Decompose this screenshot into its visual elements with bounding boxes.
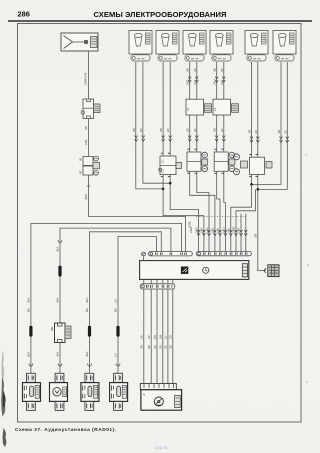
svg-text:43A: 43A [56, 352, 60, 357]
connector mark w2 [58, 364, 62, 367]
radio connector strip A [149, 252, 193, 256]
svg-text:43A: 43A [56, 298, 60, 303]
antenna unit box [61, 33, 98, 51]
speaker HP5 rear shelf left [245, 31, 268, 62]
svg-text:24S: 24S [186, 80, 190, 85]
svg-text:24BR-FB: 24BR-FB [84, 73, 88, 85]
wire HP5 right [257, 62, 259, 189]
svg-text:90: 90 [79, 170, 83, 174]
connector arrows HP4 [215, 136, 218, 142]
connector tab w2 bottom [55, 401, 64, 410]
fuse w4 [116, 326, 119, 337]
connector tab w4 bottom [114, 401, 123, 410]
relay box [50, 323, 71, 343]
inline antenna connector [79, 156, 100, 175]
scan smudge lower [3, 428, 7, 447]
svg-text:BA: BA [85, 308, 89, 312]
wire HP5 left [251, 62, 253, 184]
wire radio-out 5 [167, 279, 169, 283]
fuse w3 [88, 326, 91, 337]
svg-text:24T: 24T [216, 228, 220, 233]
svg-text:43A: 43A [56, 247, 60, 252]
wire illumination w4 [118, 237, 156, 374]
svg-text:286: 286 [18, 9, 30, 18]
fuse w2 [58, 266, 61, 277]
svg-text:3B: 3B [84, 126, 88, 130]
antenna wire to radio [89, 175, 186, 252]
svg-text:2B: 2B [159, 128, 163, 132]
scan speck [305, 154, 307, 156]
radio earth pin [142, 252, 146, 261]
door connector HP4 [214, 152, 235, 172]
wire HP5R to CD connector [258, 189, 266, 270]
connector arrows radio bundle [197, 230, 247, 236]
connector arrows HP5 [250, 137, 253, 143]
junction HP2-right [169, 182, 172, 185]
wire radio-out 2 [150, 279, 152, 283]
radio clock icon [203, 267, 209, 273]
wire HP6 right [258, 62, 288, 189]
connector arrows HP1 [135, 136, 138, 142]
connector tab w3 [85, 373, 94, 382]
wire HP1 right [143, 62, 170, 183]
fuse box assembly PP3 [81, 383, 99, 402]
svg-text:3B: 3B [213, 68, 217, 72]
svg-text:2B: 2B [132, 128, 136, 132]
wire HP2 right [169, 62, 171, 183]
svg-text:Спр.ru: Спр.ru [154, 445, 168, 450]
svg-text:24U: 24U [213, 79, 217, 85]
wire pin B10 stub [245, 214, 247, 252]
svg-text:24V: 24V [220, 80, 224, 85]
wire battery feed w1 [31, 223, 182, 373]
wire radio-out 3 [156, 279, 158, 283]
svg-text:20A: 20A [27, 352, 31, 357]
connector arrows HP4 upper [215, 77, 218, 83]
wire tick [87, 185, 91, 187]
svg-text:20A: 20A [27, 298, 31, 303]
fuse box assembly PP4 [110, 383, 128, 402]
inline connector HP3 [186, 99, 212, 115]
svg-text:N: N [143, 393, 145, 397]
radio cassette icon [181, 267, 188, 274]
wire radio-out 4 [162, 279, 164, 283]
radio bottom connector strip [140, 284, 175, 289]
wire HP3 left [190, 62, 215, 252]
pin labels radio bundle [189, 227, 240, 233]
battery unit box [50, 383, 68, 402]
svg-text:38A: 38A [85, 298, 89, 303]
svg-text:30M: 30M [84, 194, 88, 200]
labels radio-out lower [140, 344, 173, 349]
svg-text:2L: 2L [164, 335, 168, 339]
svg-text:24T: 24T [193, 80, 197, 85]
svg-text:3G: 3G [169, 344, 173, 349]
twisted pair marker [196, 216, 248, 218]
svg-text:16: 16 [213, 107, 217, 111]
svg-text:M5: M5 [50, 327, 54, 331]
connector mark w4 [116, 364, 120, 367]
junction HP5-left [250, 183, 253, 186]
connector arrows HP3 [188, 136, 191, 142]
scan smudge upper [2, 350, 5, 380]
connector tab w1 bottom [27, 401, 36, 410]
svg-text:BA: BA [27, 308, 31, 312]
svg-text:3B: 3B [186, 68, 190, 72]
svg-text:30M: 30M [188, 221, 192, 227]
svg-text:2N: 2N [153, 335, 157, 339]
wire HP2L to radio [163, 189, 204, 252]
connector arrows HP6 [280, 137, 283, 143]
svg-text:24N: 24N [194, 227, 198, 233]
connector tab w3 bottom [85, 401, 94, 410]
wire HP6 left [252, 62, 282, 184]
radio connector strip B [196, 252, 251, 256]
svg-text:90: 90 [79, 157, 83, 161]
wire HP2 left [162, 62, 164, 189]
display unit box [141, 390, 182, 411]
wire HP2R to radio [170, 183, 198, 251]
door connector HP2 [159, 156, 182, 175]
wire amp to connector [88, 119, 90, 157]
svg-text:3E: 3E [164, 345, 168, 349]
svg-text:2S: 2S [140, 335, 144, 339]
wire HP1 left [136, 62, 163, 189]
inline connector HP4 [213, 99, 239, 115]
svg-text:38A: 38A [85, 352, 89, 357]
labels radio-out upper [140, 334, 173, 339]
svg-text:Схема 37. Аудиоустановка (RAD0: Схема 37. Аудиоустановка (RAD01). [15, 427, 116, 433]
connector tab w4 [114, 373, 123, 382]
speaker HP6 rear shelf right [273, 31, 296, 62]
speaker HP4 rear right door [210, 31, 233, 62]
wire radio-out 1 [143, 279, 145, 283]
svg-text:3B: 3B [147, 345, 151, 349]
svg-text:C1: C1 [161, 159, 165, 163]
svg-text:2M: 2M [159, 334, 163, 339]
connector arrows HP3 upper [188, 77, 191, 83]
svg-text:24M: 24M [189, 227, 193, 233]
svg-text:C2: C2 [161, 169, 165, 173]
display unit connector strip [140, 384, 176, 390]
svg-text:LA: LA [114, 353, 118, 357]
wire HP3 right [197, 62, 209, 252]
door connector HP3 [187, 152, 208, 172]
wire ignition feed w3 [90, 232, 162, 373]
CD changer connector [264, 265, 279, 277]
fuse F20 w1 [29, 326, 32, 337]
header rule [8, 20, 312, 22]
speaker HP3 rear left door [183, 31, 206, 62]
wire radio-out 6 [172, 279, 174, 283]
svg-text:24U: 24U [221, 227, 225, 233]
wire HP5R branch to radio [236, 189, 255, 251]
wire accessory feed w2 [60, 228, 171, 373]
wire pin B9 stub [240, 214, 242, 252]
svg-text:СХЕМЫ ЭЛЕКТРООБОРУДОВАНИЯ: СХЕМЫ ЭЛЕКТРООБОРУДОВАНИЯ [94, 10, 227, 19]
svg-text:2M: 2M [253, 233, 257, 238]
wire HP4 left [217, 62, 220, 252]
radio head unit box [140, 261, 249, 280]
connector mark w3 [88, 364, 92, 367]
svg-text:BA: BA [114, 308, 118, 312]
pin number marks door connectors [161, 149, 258, 176]
fuse box assembly PP1 [23, 383, 41, 402]
svg-text:2B: 2B [248, 130, 252, 134]
wire HP4 right [224, 62, 226, 252]
speaker HP2 front right [156, 31, 179, 62]
shelf connector HP5 [234, 154, 273, 175]
svg-text:2B: 2B [186, 128, 190, 132]
connector arrows HP2 [162, 136, 165, 142]
connector tab w2 [55, 373, 64, 382]
svg-text:2B: 2B [213, 128, 217, 132]
svg-text:2B: 2B [277, 130, 281, 134]
radio side connector [242, 264, 247, 277]
antenna amplifier box [81, 99, 100, 119]
svg-text:16: 16 [186, 107, 190, 111]
connector tab w1 [27, 373, 36, 382]
svg-text:3N: 3N [140, 345, 144, 349]
speaker HP1 front left [129, 31, 152, 62]
svg-text:24B: 24B [84, 140, 88, 145]
svg-text:LA: LA [114, 299, 118, 303]
wire HP5L to radio [231, 184, 252, 251]
junction HP5-right [257, 188, 260, 191]
connector mark w2 top [58, 240, 62, 243]
antenna coax wire [88, 51, 90, 99]
connector mark w1 [29, 364, 33, 367]
junction HP2-left [162, 188, 165, 191]
